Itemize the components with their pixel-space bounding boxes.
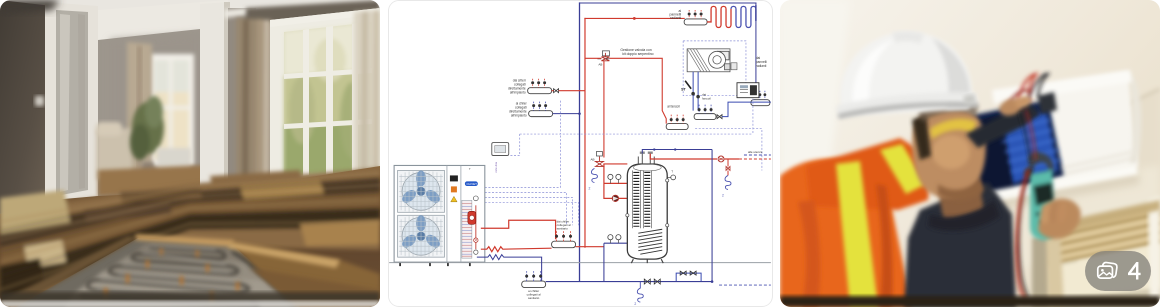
valve cluster V1 (3-way diverter top): [597, 51, 609, 66]
insulation mesh rows: [64, 244, 292, 307]
thermostat TH1: [492, 143, 509, 156]
window with blinds bottom right: [1032, 196, 1160, 307]
lower spiral coil: [638, 229, 662, 254]
wire: main return riser (navy): [579, 3, 581, 281]
glass door pane: [56, 10, 88, 196]
wire: top return run (navy): [580, 2, 756, 4]
vest orange left panel: [780, 159, 912, 307]
right end cap rounded: [1128, 72, 1141, 166]
valance above blinds: [1050, 200, 1160, 234]
technician: [780, 32, 1081, 307]
svg-text:2: 2: [722, 193, 724, 197]
manifold M6 ai chiler collegati: [509, 102, 553, 118]
expansion coil E3: [591, 168, 597, 182]
brim clip right: [963, 94, 975, 105]
tile 2: heat pump schematic: [388, 0, 773, 307]
jaw shading: [938, 178, 984, 200]
wire: dashed control bundle from heat pump: [485, 101, 579, 226]
shadow under unit: [966, 172, 1140, 216]
node: run to edge junction: [711, 280, 714, 283]
interior curtain: [127, 42, 152, 172]
expansion coil E2: [725, 175, 731, 189]
valve V7: [654, 279, 660, 284]
wire: tank upper feed with gauges (red): [604, 164, 627, 198]
wire: V2 to tank top (red): [603, 163, 627, 165]
panes greenery: [284, 22, 372, 176]
lime stripe shoulder: [880, 144, 926, 194]
svg-text:kit doppio serpentino: kit doppio serpentino: [622, 52, 653, 56]
svg-text:radianti: radianti: [756, 64, 767, 68]
feet: [400, 262, 470, 266]
terminal box and wires on top: [1008, 74, 1057, 114]
crown molding right: [224, 0, 330, 18]
internal red pipe: [475, 205, 477, 249]
closed right part: [1038, 72, 1138, 184]
interior sofa: [96, 128, 132, 180]
node: junction dot on supply run: [633, 17, 636, 20]
manifold M3 ai chiller al sanitario (blue): [522, 271, 546, 300]
wire: valve V1 to fancoil branch (red): [585, 58, 666, 123]
valve V4: [680, 271, 686, 275]
side gauge: [671, 175, 676, 180]
svg-text:sanitario: sanitario: [557, 226, 569, 230]
interior window: [149, 54, 194, 166]
wire: M6 to return riser (navy): [553, 113, 580, 115]
wire: dashed control bus horizontal: [520, 133, 753, 135]
bottom light screed edge: [0, 301, 380, 307]
gauge T2: [608, 235, 613, 240]
wire: dashed zone box right: [695, 129, 762, 171]
bottom dark strip: [780, 296, 1160, 307]
wire: tank top to return riser vertical (navy): [642, 150, 712, 282]
interior plant: [130, 96, 164, 174]
mullions: [303, 29, 309, 176]
svg-text:2: 2: [634, 302, 636, 305]
temperature probe fitting on fan coil: [731, 63, 737, 70]
raised right arm sleeve: [966, 102, 1040, 148]
legs: [631, 259, 663, 263]
wire: fancoil return to right edge (navy): [722, 102, 771, 116]
photo count badge: [1085, 251, 1151, 291]
svg-text:fancoil: fancoil: [702, 96, 711, 100]
wire: serpentine return drop (navy): [755, 3, 757, 91]
wire: dashed control bus vertical right: [752, 99, 754, 134]
underside white band: [964, 164, 1138, 206]
right bright curtain edge: [1148, 196, 1160, 307]
node junction dots: [653, 148, 655, 150]
wire: dashed utility return from edge (navy dashed): [744, 154, 771, 156]
hand holding meter: [1038, 199, 1081, 239]
wire: supply riser (red): [584, 18, 586, 247]
manifold M7 ai fancoil (red): [666, 105, 688, 130]
small gauges on unit: [473, 196, 478, 201]
gauge P1: [616, 174, 621, 179]
collar shadow: [928, 200, 1000, 231]
radiant panel serpentine coil: [707, 5, 756, 28]
vest shoulder piece: [806, 138, 932, 210]
wire: tank top to utilities (red): [650, 153, 739, 158]
ceiling: [0, 0, 380, 28]
buffer tank TK1: [626, 152, 676, 264]
lower edge strip: [1052, 288, 1160, 307]
ceiling/wall corner right: [1110, 88, 1160, 190]
node: junction on return riser: [578, 112, 581, 115]
open interior blue: [958, 100, 1064, 202]
floor base: [0, 166, 380, 307]
pump P2 on fancoil return: [717, 115, 722, 119]
svg-text:ai fancoil: ai fancoil: [667, 105, 680, 109]
face: [912, 107, 986, 197]
svg-text:alle utenze: alle utenze: [748, 150, 763, 154]
heat pump outdoor unit HP1: [394, 165, 485, 266]
vest shading folds: [798, 200, 820, 307]
wire: HP return with flex hose (navy): [477, 255, 542, 282]
exchanger hatch strip: [462, 200, 472, 258]
shaded wall left of window: [1032, 228, 1080, 307]
internal coil right: [643, 170, 651, 228]
circulator pump (red): [468, 211, 476, 224]
svg-text:all'impianto: all'impianto: [511, 114, 527, 118]
control column: [447, 165, 461, 262]
tile 3: technician photo: [780, 0, 1160, 307]
heating pipes: [80, 247, 294, 307]
valve cluster V2 (3-way near tank): [590, 152, 603, 167]
right grey wall: [228, 8, 256, 188]
floor planks: [0, 168, 380, 307]
wire: dashed sanitary line to edge (navy dashed): [719, 284, 771, 286]
thermostat zone dashed box around fan coil: [683, 41, 746, 96]
svg-text:AB: AB: [590, 157, 594, 161]
wire: M5 to supply riser (red): [552, 90, 585, 92]
pump P4: [612, 195, 618, 201]
helmet: [840, 32, 972, 116]
interior radiator: [157, 148, 191, 172]
wood step right of cutaway: [230, 242, 380, 307]
helmet brim: [836, 92, 978, 118]
white door frame: [45, 2, 98, 204]
wire: HP DHW line with flex hose (red): [481, 247, 604, 252]
wall under unit: [960, 165, 1160, 280]
wood edge far side of cutaway: [134, 234, 234, 247]
valves on fancoil drops: [691, 92, 700, 99]
hand at unit with probe: [997, 94, 1032, 119]
bright window light below: [1050, 244, 1160, 307]
svg-text:ST: ST: [681, 88, 686, 92]
valve V3 on utility supply: [718, 156, 724, 162]
brand label: [465, 181, 478, 186]
fan grille upper: [398, 170, 445, 212]
curtain A: [236, 18, 272, 190]
control panel CP1: [737, 83, 759, 98]
pump P3 after manifold M5: [554, 89, 559, 93]
fan grille lower: [398, 215, 445, 257]
left dark wall: [0, 0, 52, 214]
wire: top supply run to radiant manifold (red): [585, 17, 684, 19]
tank top fittings: [638, 153, 654, 163]
wire: tank lower return with gauges (navy): [604, 243, 627, 281]
expansion coil E1 below run: [637, 282, 643, 302]
svg-text:T: T: [671, 169, 673, 173]
light patches: [0, 190, 70, 234]
lime stripe vertical: [836, 161, 878, 307]
safety glasses yellow: [930, 119, 976, 139]
wire: HP supply to sanitary manifold (red): [481, 220, 556, 239]
pins: [104, 248, 239, 302]
valve V5: [690, 271, 696, 275]
cutaway opening: [0, 234, 380, 307]
plank seams: [0, 173, 380, 290]
sheer curtain right: [354, 10, 380, 175]
internal coil left: [632, 170, 640, 228]
wire: bottom DHW return run (navy): [546, 281, 712, 283]
svg-text:sanitario: sanitario: [528, 296, 540, 300]
left rim: [0, 236, 138, 307]
hair sliver: [912, 114, 931, 160]
interior floor: [98, 164, 228, 196]
left frame vertical: [1046, 229, 1064, 307]
meter leads dangling: [1016, 110, 1036, 302]
under-brim shadow: [918, 102, 978, 122]
manifold M4 dai chiller al sanitario: [552, 219, 576, 247]
soft vignette top of left wall: [0, 0, 60, 14]
ground baseline: [389, 262, 771, 264]
bright wall top-left: [780, 0, 850, 180]
taupe band above window: [246, 0, 380, 26]
wire: valve V1 down to tank valve (red): [603, 61, 605, 158]
manifold M8 fancoil return (blue): [694, 105, 716, 120]
right window: [270, 8, 380, 182]
neck: [938, 176, 984, 222]
fan coil unit FC1: [687, 49, 730, 72]
interior back wall shading: [110, 34, 200, 182]
wire: bypass bump with valves (navy): [676, 273, 701, 281]
torso shirt dark: [904, 182, 1016, 307]
svg-text:CLIVET: CLIVET: [466, 182, 477, 186]
manifold M1 ai pannelli radianti: [670, 9, 708, 25]
interior header molding: [98, 0, 228, 40]
tank side ports: [666, 179, 669, 182]
safety group with expansion loop (red drop): [727, 159, 729, 175]
wire: dashed utility supply to edge (red dashed): [739, 158, 771, 160]
tile 1: interior room photo: [0, 0, 380, 307]
vent lines on closed part: [1062, 152, 1134, 174]
cheek highlight: [932, 135, 970, 169]
manifold M2 dai pannelli radianti: [751, 56, 770, 106]
wire: fancoil drops (navy): [693, 72, 698, 111]
svg-text:T: T: [469, 167, 471, 171]
blind slat band: [1050, 206, 1160, 266]
gauge P5: [616, 235, 621, 240]
bottom shade band: [0, 292, 380, 302]
valve V6: [644, 279, 650, 284]
gauge T1: [608, 174, 613, 179]
top lid: [992, 70, 1132, 104]
helmet top ridge: [892, 32, 924, 44]
svg-text:radianti: radianti: [670, 16, 681, 20]
svg-text:AB: AB: [598, 62, 602, 66]
svg-text:2: 2: [588, 186, 590, 190]
light switch: [35, 96, 44, 106]
svg-text:rete dss: rete dss: [494, 161, 498, 172]
right white pillar: [200, 2, 230, 194]
manifold M5 dai criteri collegati: [508, 79, 552, 95]
doorway interior room: [98, 6, 228, 196]
svg-text:all'impianto: all'impianto: [510, 91, 526, 95]
AC unit body: [958, 70, 1141, 216]
clamp meter: [1024, 152, 1056, 240]
